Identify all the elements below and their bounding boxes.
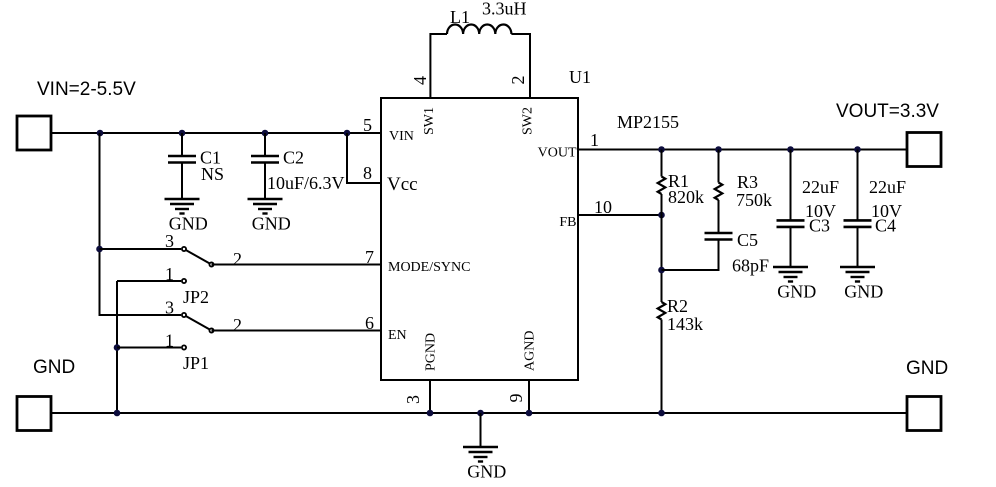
svg-text:VIN: VIN <box>389 129 414 144</box>
svg-text:Vcc: Vcc <box>387 174 418 195</box>
pin name SW2 <box>521 107 536 135</box>
svg-text:JP1: JP1 <box>183 353 209 373</box>
svg-text:GND: GND <box>252 214 291 234</box>
svg-text:GND: GND <box>169 214 208 234</box>
wire R1-R2 link <box>661 194 663 302</box>
wire Vcc branch <box>347 133 381 183</box>
svg-text:1: 1 <box>165 331 174 351</box>
svg-text:C3: C3 <box>809 216 830 236</box>
svg-text:MODE/SYNC: MODE/SYNC <box>388 260 470 275</box>
resistor R1 <box>658 171 704 207</box>
svg-text:VOUT=3.3V: VOUT=3.3V <box>836 101 939 122</box>
inductor L1 <box>447 0 527 34</box>
pin number 1 <box>590 130 599 150</box>
junction C5 branch <box>658 267 665 274</box>
wire JP1 pin1 <box>117 347 181 349</box>
junction FB <box>658 212 665 219</box>
svg-text:3: 3 <box>165 231 174 251</box>
wire R3 top stub <box>718 150 720 183</box>
capacitor C4 <box>844 177 907 267</box>
pin number 3 <box>403 395 423 404</box>
junction AGND <box>526 410 533 417</box>
wire VIN rail <box>51 132 381 134</box>
capacitor C3 <box>777 177 840 267</box>
pin JP1-mid circle <box>209 328 213 332</box>
net label VOUT=3.3V <box>836 101 939 122</box>
pin name VOUT <box>538 146 577 161</box>
svg-text:1: 1 <box>165 264 174 284</box>
wire left vertical from node A <box>99 133 101 316</box>
junction PGND <box>427 410 434 417</box>
wire FB net <box>578 214 662 216</box>
wire vertical B <box>116 281 118 413</box>
wire R3-C5 link <box>718 200 720 233</box>
svg-text:7: 7 <box>365 247 374 267</box>
junction R2 bus <box>658 410 665 417</box>
wire SW1 pin 4 <box>430 34 447 98</box>
junction C1 top <box>179 130 186 137</box>
svg-text:C4: C4 <box>875 216 896 236</box>
ground center <box>463 447 506 482</box>
svg-text:3: 3 <box>165 298 174 318</box>
svg-text:68pF: 68pF <box>732 256 769 276</box>
svg-text:GND: GND <box>33 357 75 378</box>
wire C3 stub <box>790 150 792 221</box>
net label GND left <box>33 357 75 378</box>
pin JP1-1 circle <box>182 345 186 349</box>
pin number 7 <box>365 247 374 267</box>
junction C4 top <box>854 146 861 153</box>
junction bus B <box>114 410 121 417</box>
svg-text:C2: C2 <box>283 148 304 168</box>
wire JP1 arm <box>184 315 212 331</box>
pin JP2-1 circle <box>182 279 186 283</box>
op-amp U1 MP2155 body <box>381 98 578 380</box>
terminal pad VIN <box>17 116 51 150</box>
svg-text:VOUT: VOUT <box>538 146 577 161</box>
svg-text:SW2: SW2 <box>521 107 536 135</box>
svg-text:820k: 820k <box>668 187 704 207</box>
wire AGND pin 9 <box>528 380 530 413</box>
svg-text:AGND: AGND <box>523 331 538 371</box>
pin number 8 <box>363 163 372 183</box>
wire C4 stub <box>857 150 859 221</box>
pin number 10 <box>594 197 612 217</box>
pin name VIN <box>389 129 414 144</box>
label JP2 <box>183 287 209 307</box>
wire center ground stub <box>480 413 482 447</box>
junction center ground <box>477 410 484 417</box>
svg-text:SW1: SW1 <box>422 107 437 135</box>
svg-text:22uF: 22uF <box>802 177 839 197</box>
svg-text:2: 2 <box>508 76 528 85</box>
svg-text:FB: FB <box>559 215 576 230</box>
pin JP2-mid circle <box>209 262 213 266</box>
label MP2155 <box>617 112 679 132</box>
label JP2 pin 1 <box>165 264 174 284</box>
pin JP1-3 circle <box>182 313 186 317</box>
ground under C3 <box>773 267 816 302</box>
resistor R2 <box>658 296 703 334</box>
pin number 6 <box>365 313 374 333</box>
wire ground bus <box>51 412 907 414</box>
junction JP2 pin3 <box>96 246 103 253</box>
label JP1 pin 1 <box>165 331 174 351</box>
svg-text:8: 8 <box>363 163 372 183</box>
pin name FB <box>559 215 576 230</box>
resistor R3 <box>715 172 772 210</box>
junction R1 top <box>658 146 665 153</box>
svg-text:GND: GND <box>844 282 883 302</box>
wire MODE/SYNC net <box>212 264 382 266</box>
ground under C4 <box>840 267 883 302</box>
svg-text:2: 2 <box>233 249 242 269</box>
svg-text:U1: U1 <box>569 67 591 87</box>
ground under C2 <box>248 199 291 234</box>
pin name Vcc <box>387 174 418 195</box>
svg-text:9: 9 <box>506 394 526 403</box>
svg-text:R3: R3 <box>737 172 758 192</box>
wire R2 bottom stub <box>661 320 663 414</box>
svg-text:EN: EN <box>388 328 407 343</box>
svg-text:PGND: PGND <box>424 333 439 371</box>
ground under C1 <box>165 199 208 234</box>
wire JP1 pin3 <box>100 314 182 316</box>
svg-text:750k: 750k <box>736 190 772 210</box>
wire R1 top stub <box>661 150 663 177</box>
svg-text:NS: NS <box>201 164 224 184</box>
wire C2 stub <box>264 133 266 156</box>
wire PGND pin 3 <box>429 380 431 413</box>
svg-text:GND: GND <box>906 358 948 379</box>
pin number 5 <box>363 115 372 135</box>
svg-text:3.3uH: 3.3uH <box>482 0 527 19</box>
pin name SW1 <box>422 107 437 135</box>
label U1 <box>569 67 591 87</box>
junction JP1 pin1 <box>114 344 121 351</box>
wire EN net <box>212 330 382 332</box>
wire JP2 pin1 <box>117 280 181 282</box>
pin name AGND <box>523 331 538 371</box>
svg-text:JP2: JP2 <box>183 287 209 307</box>
net label GND right <box>906 358 948 379</box>
svg-text:22uF: 22uF <box>869 177 906 197</box>
svg-text:VIN=2-5.5V: VIN=2-5.5V <box>37 79 136 100</box>
svg-text:MP2155: MP2155 <box>617 112 679 132</box>
capacitor C1 <box>168 148 224 200</box>
svg-text:143k: 143k <box>667 314 703 334</box>
terminal pad GND left <box>17 397 51 431</box>
terminal pad GND right <box>907 397 941 431</box>
pin name EN <box>388 328 407 343</box>
terminal pad VOUT <box>907 133 941 167</box>
junction C2 top <box>262 130 269 137</box>
pin number 4 <box>410 76 430 85</box>
wire VOUT rail <box>578 149 907 151</box>
label JP2 pin 3 <box>165 231 174 251</box>
wire C5 bottom <box>662 240 719 271</box>
svg-text:3: 3 <box>403 395 423 404</box>
wire JP2 pin3 <box>100 248 182 250</box>
wire SW2 pin 2 <box>511 34 530 98</box>
svg-text:R2: R2 <box>667 296 688 316</box>
junction R3 top <box>715 146 722 153</box>
svg-text:L1: L1 <box>450 7 470 27</box>
pin name MODE/SYNC <box>388 260 470 275</box>
pin number 2 <box>508 76 528 85</box>
label JP2 pin 2 <box>233 249 242 269</box>
svg-text:GND: GND <box>777 282 816 302</box>
svg-text:6: 6 <box>365 313 374 333</box>
capacitor C2 <box>251 148 345 200</box>
junction C3 top <box>787 146 794 153</box>
label JP1 <box>183 353 209 373</box>
net label VIN=2-5.5V <box>37 79 136 100</box>
label JP1 pin 3 <box>165 298 174 318</box>
svg-text:5: 5 <box>363 115 372 135</box>
pin number 9 <box>506 394 526 403</box>
pin name PGND <box>424 333 439 371</box>
junction Vcc branch <box>344 130 351 137</box>
junction node A (x=100) <box>97 130 104 137</box>
svg-text:10uF/6.3V: 10uF/6.3V <box>267 173 345 193</box>
svg-text:4: 4 <box>410 76 430 85</box>
svg-text:C5: C5 <box>737 230 758 250</box>
wire JP2 arm <box>184 249 212 265</box>
svg-text:2: 2 <box>233 315 242 335</box>
svg-text:1: 1 <box>590 130 599 150</box>
wire C1 stub <box>181 133 183 156</box>
pin JP2-3 circle <box>182 247 186 251</box>
capacitor C5 <box>705 230 770 276</box>
label JP1 pin 2 <box>233 315 242 335</box>
svg-text:GND: GND <box>467 462 506 482</box>
